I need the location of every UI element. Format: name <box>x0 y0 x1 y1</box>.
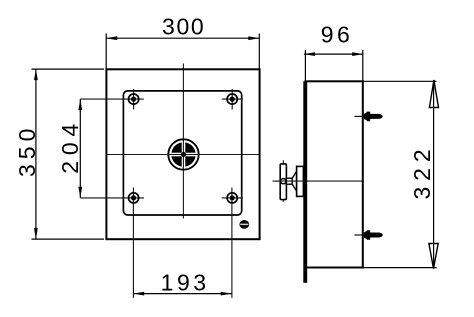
node clamp knob handle bar <box>280 160 286 202</box>
wire extension line 350 top <box>32 68 105 70</box>
node outer mounting plate (front view 300x350) <box>106 69 259 239</box>
wire centerline over clamp <box>275 180 305 182</box>
svg-text:300: 300 <box>162 13 205 39</box>
node pin top on side view <box>354 112 382 122</box>
wire extension line 300 right <box>258 34 260 70</box>
node mounting plate edge-on (thick bar) <box>303 81 307 282</box>
svg-text:350: 350 <box>14 124 40 177</box>
node hole top-left crosshair <box>80 89 144 109</box>
node hole bottom-right crosshair + 193 extension <box>222 188 243 298</box>
wire extension line 350 bottom <box>32 238 105 240</box>
node arrow 322 bottom (hollow) <box>429 244 438 269</box>
wire dimension line 300 <box>106 36 259 40</box>
wire extension line 96 left <box>304 50 306 81</box>
node clamp screw shaft <box>286 178 292 184</box>
wire dimension line 350 <box>34 69 38 239</box>
node side view body box <box>305 81 362 267</box>
node clamp washer boss <box>297 166 304 196</box>
wire dimension line 204 <box>78 99 82 198</box>
node clamp cone hub <box>292 171 296 191</box>
wire vertical centerline of front view <box>182 64 184 219</box>
wire dimension line 322 <box>433 81 435 267</box>
wire extension line 300 left <box>105 34 107 70</box>
wire extension line 322 top (box top edge extended) <box>363 80 437 82</box>
svg-text:193: 193 <box>161 270 210 296</box>
node small slotted screw bottom-right <box>239 220 249 229</box>
wire extension line 96 right <box>362 50 364 81</box>
svg-text:204: 204 <box>57 118 83 174</box>
wire dimension line 193 <box>133 292 232 296</box>
node arrow 322 top (hollow) <box>429 80 438 108</box>
node hole bottom-left crosshair + 193 extension <box>80 188 144 298</box>
wire horizontal centerline of side view <box>273 180 363 182</box>
wire dimension line 96 <box>304 52 363 56</box>
wire horizontal centerline of front view <box>106 154 259 156</box>
node center phillips screw head <box>168 139 199 170</box>
wire extension line 322 bottom (box bottom edge extended) <box>363 267 437 269</box>
svg-text:96: 96 <box>321 21 354 47</box>
node pin bottom on side view <box>354 230 382 240</box>
node hole top-right crosshair <box>222 89 243 109</box>
node inner adapter plate with rounded corners <box>123 91 241 215</box>
svg-text:322: 322 <box>409 143 435 199</box>
